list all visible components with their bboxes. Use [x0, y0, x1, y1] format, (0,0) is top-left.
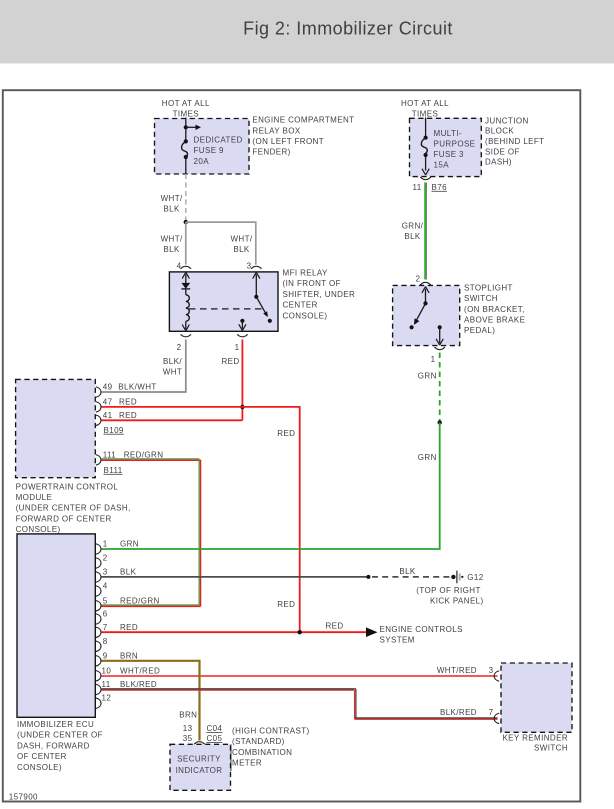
connector C04 C05 labels — [183, 724, 193, 743]
relay coil winding — [186, 295, 190, 321]
immobilizer ECU box — [17, 534, 95, 717]
MFI relay coil branch (pin 4) — [185, 275, 187, 284]
svg-text:METER: METER — [232, 759, 262, 768]
svg-text:Fig 2: Immobilizer Circuit: Fig 2: Immobilizer Circuit — [243, 18, 453, 38]
svg-text:WHT/: WHT/ — [161, 234, 183, 243]
svg-text:5: 5 — [103, 596, 108, 605]
wire into fuse box — [185, 118, 187, 175]
svg-text:(TOP OF RIGHT: (TOP OF RIGHT — [416, 586, 480, 595]
svg-text:BLK/WHT: BLK/WHT — [118, 383, 156, 392]
pin 2 immobilizer — [96, 558, 101, 568]
svg-text:C04: C04 — [207, 724, 223, 733]
ground G12 — [451, 575, 455, 579]
svg-text:12: 12 — [102, 694, 112, 703]
svg-text:RED: RED — [325, 622, 343, 631]
pin 47 PCM — [96, 402, 101, 412]
svg-text:B111: B111 — [104, 466, 123, 475]
svg-text:SHIFTER, UNDER: SHIFTER, UNDER — [283, 290, 356, 299]
svg-text:2: 2 — [416, 275, 421, 284]
PCM box — [16, 379, 96, 477]
junction block fuse box — [410, 118, 482, 176]
branch arrow node — [184, 125, 188, 129]
switch box: stoplight switch — [393, 285, 460, 345]
svg-text:7: 7 — [103, 623, 108, 632]
wire BLK/WHT from MFI pin2 to PCM pin49 — [102, 340, 186, 393]
svg-text:GRN/: GRN/ — [402, 221, 424, 230]
svg-text:(ON LEFT FRONT: (ON LEFT FRONT — [252, 137, 324, 146]
svg-text:RED/GRN: RED/GRN — [120, 596, 160, 605]
label security indicator — [176, 755, 223, 776]
svg-text:2: 2 — [177, 343, 182, 352]
svg-text:BLOCK: BLOCK — [485, 127, 514, 136]
node junction red — [240, 405, 244, 409]
svg-text:STOPLIGHT: STOPLIGHT — [464, 283, 513, 292]
relay pin 1 stub — [240, 319, 244, 323]
wire RED pin41 — [102, 419, 243, 421]
wire GRN/BLK to stoplight switch — [424, 183, 426, 280]
svg-text:PURPOSE: PURPOSE — [434, 139, 476, 148]
svg-text:BLK/RED: BLK/RED — [440, 708, 477, 717]
wire label WHT/BLK (left branch) — [161, 234, 183, 254]
svg-text:OF CENTER: OF CENTER — [17, 752, 67, 761]
svg-text:DASH): DASH) — [485, 158, 512, 167]
svg-text:CONSOLE): CONSOLE) — [283, 311, 328, 320]
label key reminder switch — [502, 734, 568, 753]
wire label RED (upper, vertical feed) — [277, 429, 295, 438]
svg-text:C05: C05 — [207, 734, 223, 743]
svg-text:TIMES: TIMES — [412, 109, 438, 118]
svg-text:7: 7 — [489, 708, 494, 717]
svg-text:11: 11 — [412, 183, 421, 192]
label immobilizer ECU — [17, 720, 103, 772]
label MFI relay — [283, 269, 356, 321]
fuse F9 value label — [194, 136, 243, 166]
svg-text:3: 3 — [103, 568, 108, 577]
svg-text:47: 47 — [103, 397, 113, 406]
svg-text:FENDER): FENDER) — [252, 148, 290, 157]
wire into fuse 3 — [425, 118, 427, 171]
wire label BLK/RED and pin 7 number — [440, 708, 494, 717]
svg-text:(UNDER CENTER OF DASH,: (UNDER CENTER OF DASH, — [16, 504, 131, 513]
relay box: dedicated fuse 9 box — [155, 119, 250, 175]
svg-text:BRN: BRN — [120, 651, 138, 660]
fuse F3 element — [424, 136, 428, 140]
svg-text:111: 111 — [103, 450, 117, 459]
svg-text:CONSOLE): CONSOLE) — [17, 763, 62, 772]
svg-text:RED: RED — [277, 429, 295, 438]
svg-text:1: 1 — [103, 540, 108, 549]
pin 8 immobilizer — [96, 641, 101, 651]
bracket line — [230, 744, 232, 771]
svg-text:MULTI-: MULTI- — [434, 129, 462, 138]
svg-text:(IN FRONT OF: (IN FRONT OF — [283, 279, 341, 288]
label combination meter — [232, 726, 310, 767]
wire label RED (lower, vertical feed) — [277, 600, 295, 609]
svg-text:1: 1 — [431, 355, 436, 364]
diode D in relay — [181, 283, 190, 289]
svg-text:HOT AT ALL: HOT AT ALL — [401, 99, 449, 108]
svg-text:B76: B76 — [432, 183, 448, 192]
pin 49 PCM — [96, 387, 101, 397]
svg-text:JUNCTION: JUNCTION — [485, 116, 529, 125]
svg-text:3: 3 — [247, 262, 252, 271]
wire GRN solid to immobilizer pin 1 — [102, 423, 440, 550]
node splice on green — [438, 420, 442, 424]
svg-text:BLK/: BLK/ — [163, 357, 182, 366]
wire WHT/BLK to MFI pin 3 — [186, 222, 256, 265]
fuse F3 value label — [434, 129, 476, 170]
svg-text:BLK: BLK — [120, 568, 137, 577]
node HOT AT ALL TIMES (left) — [162, 99, 210, 119]
relay U1 MFI relay box — [169, 272, 278, 331]
svg-text:GRN: GRN — [120, 540, 139, 549]
svg-text:10: 10 — [102, 666, 112, 675]
svg-text:1: 1 — [235, 343, 240, 352]
svg-text:FORWARD OF CENTER: FORWARD OF CENTER — [16, 514, 112, 523]
wire label RED (to engine controls) — [325, 622, 343, 631]
connector B109 — [104, 426, 124, 435]
fuse F9 element — [184, 139, 188, 143]
svg-text:ABOVE BRAKE: ABOVE BRAKE — [464, 316, 525, 325]
svg-text:15A: 15A — [434, 160, 450, 169]
svg-text:PEDAL): PEDAL) — [464, 326, 495, 335]
svg-text:4: 4 — [177, 262, 182, 271]
svg-text:RED: RED — [119, 411, 137, 420]
relay switch contact (pin 3 to pin 1) — [255, 275, 257, 297]
svg-text:IMMOBILIZER ECU: IMMOBILIZER ECU — [17, 720, 94, 729]
wire label BLK (ground run) — [399, 567, 416, 576]
svg-text:MODULE: MODULE — [16, 493, 53, 502]
svg-text:BLK/RED: BLK/RED — [120, 680, 157, 689]
svg-text:3: 3 — [489, 666, 494, 675]
wire label RED (MFI pin 1) — [221, 357, 239, 366]
svg-text:SECURITY: SECURITY — [177, 755, 221, 764]
label engine compartment relay box — [252, 116, 354, 157]
svg-text:20A: 20A — [194, 157, 210, 166]
arrow to engine controls system — [366, 627, 378, 637]
svg-text:KEY REMINDER: KEY REMINDER — [502, 734, 568, 743]
pin 7 key reminder switch — [494, 713, 499, 723]
svg-text:MFI RELAY: MFI RELAY — [283, 269, 329, 278]
svg-text:FUSE 3: FUSE 3 — [434, 150, 465, 159]
switch box: key reminder switch — [501, 663, 572, 732]
wire GRN dashed from stoplight pin 1 — [439, 353, 441, 423]
svg-text:KICK PANEL): KICK PANEL) — [430, 597, 484, 606]
pin 4 immobilizer — [96, 586, 101, 596]
svg-text:GRN: GRN — [418, 372, 437, 381]
node HOT AT ALL TIMES (right) — [401, 99, 449, 119]
svg-text:SWITCH: SWITCH — [534, 744, 568, 753]
svg-text:SYSTEM: SYSTEM — [380, 636, 415, 645]
svg-text:WHT/: WHT/ — [230, 234, 252, 243]
svg-text:BRN: BRN — [179, 710, 197, 719]
svg-text:DASH, FORWARD: DASH, FORWARD — [17, 741, 90, 750]
svg-text:POWERTRAIN CONTROL: POWERTRAIN CONTROL — [16, 482, 119, 491]
svg-text:SIDE OF: SIDE OF — [485, 147, 520, 156]
wire label WHT/BLK (right branch) — [230, 234, 252, 254]
svg-text:2: 2 — [103, 554, 108, 563]
pin 9 immobilizer — [96, 656, 101, 666]
svg-text:RED: RED — [119, 397, 137, 406]
pin 11 immobilizer — [96, 684, 101, 694]
svg-text:CONSOLE): CONSOLE) — [16, 525, 61, 534]
svg-text:35: 35 — [183, 734, 193, 743]
pin 3 key reminder switch — [494, 671, 499, 681]
wire label GRN (solid section) — [418, 453, 437, 462]
svg-text:RELAY BOX: RELAY BOX — [252, 126, 300, 135]
svg-text:157900: 157900 — [9, 793, 38, 802]
label junction block — [485, 116, 544, 166]
svg-text:GRN: GRN — [418, 453, 437, 462]
label engine controls system — [380, 625, 463, 645]
svg-text:SWITCH: SWITCH — [464, 294, 498, 303]
wire WHT/BLK to MFI pin 4 — [185, 222, 187, 265]
title bar — [0, 0, 614, 63]
connector B76 — [420, 177, 431, 179]
label G12 location — [416, 586, 483, 606]
connector B111 — [104, 466, 123, 475]
pin 6 immobilizer — [96, 614, 101, 624]
svg-text:RED: RED — [277, 600, 295, 609]
pin 111 PCM — [96, 455, 101, 465]
svg-text:BLK: BLK — [233, 245, 250, 254]
svg-text:COMBINATION: COMBINATION — [232, 748, 292, 757]
label powertrain control module — [16, 482, 131, 534]
svg-text:G12: G12 — [467, 573, 483, 582]
pin connector security indicator — [194, 742, 205, 744]
pin 1 stoplight switch — [434, 347, 445, 349]
wire label GRN/BLK — [402, 221, 424, 241]
svg-text:4: 4 — [103, 582, 108, 591]
svg-text:9: 9 — [103, 651, 108, 660]
svg-text:(BEHIND LEFT: (BEHIND LEFT — [485, 137, 544, 146]
wire RED/GRN pin111 to immobilizer pin5 — [102, 458, 200, 460]
pin 41 PCM — [96, 415, 101, 425]
svg-text:B109: B109 — [104, 426, 124, 435]
svg-text:8: 8 — [103, 637, 108, 646]
stoplight pin1 stub — [438, 325, 442, 329]
svg-text:RED: RED — [221, 357, 239, 366]
svg-text:CENTER: CENTER — [283, 301, 318, 310]
svg-text:(STANDARD): (STANDARD) — [232, 737, 285, 746]
svg-text:BLK: BLK — [163, 204, 180, 213]
pin 7 immobilizer — [96, 627, 101, 637]
svg-text:TIMES: TIMES — [173, 109, 199, 118]
label stoplight switch — [464, 283, 525, 335]
svg-text:RED/GRN: RED/GRN — [124, 450, 164, 459]
wire label WHT/RED and pin 3 number — [437, 666, 494, 675]
wire dashed WHT/BLK below fuse — [185, 174, 187, 221]
stoplight switch contact — [425, 289, 427, 304]
pin 10 immobilizer — [96, 671, 101, 681]
svg-text:ENGINE COMPARTMENT: ENGINE COMPARTMENT — [252, 116, 354, 125]
svg-text:INDICATOR: INDICATOR — [176, 766, 223, 775]
pin 1 immobilizer — [96, 544, 101, 554]
svg-text:ENGINE CONTROLS: ENGINE CONTROLS — [380, 625, 463, 634]
svg-text:13: 13 — [183, 724, 193, 733]
svg-text:BLK: BLK — [163, 245, 180, 254]
pin 5 immobilizer — [96, 601, 101, 611]
indicator box: security indicator — [170, 744, 231, 790]
svg-text:RED: RED — [120, 623, 138, 632]
svg-text:(UNDER CENTER OF: (UNDER CENTER OF — [17, 731, 103, 740]
svg-text:FUSE 9: FUSE 9 — [194, 146, 225, 155]
svg-text:WHT/RED: WHT/RED — [120, 666, 160, 675]
svg-text:41: 41 — [103, 411, 113, 420]
wire label BRN (vertical) — [179, 710, 197, 719]
svg-text:BLK: BLK — [404, 232, 421, 241]
svg-text:DEDICATED: DEDICATED — [194, 136, 243, 145]
wire RED pin47 across to vertical — [102, 407, 300, 632]
svg-text:11: 11 — [102, 680, 111, 689]
wire label BLK/WHT — [163, 357, 183, 377]
svg-text:6: 6 — [103, 610, 108, 619]
svg-text:(ON BRACKET,: (ON BRACKET, — [464, 305, 525, 314]
svg-text:BLK: BLK — [399, 567, 416, 576]
relay actuate dashed link — [189, 308, 265, 310]
svg-text:49: 49 — [103, 383, 113, 392]
svg-text:HOT AT ALL: HOT AT ALL — [162, 99, 210, 108]
pin 3 immobilizer — [96, 572, 101, 582]
junction splice — [184, 220, 188, 224]
svg-text:WHT: WHT — [163, 368, 182, 377]
wire RED from MFI pin1 down — [241, 340, 243, 421]
svg-text:WHT/RED: WHT/RED — [437, 666, 477, 675]
svg-text:WHT/: WHT/ — [161, 194, 183, 203]
wire BRN vertical over crossing — [102, 661, 200, 741]
wire label GRN (dashed section) — [418, 372, 437, 381]
pin 12 immobilizer — [96, 698, 101, 708]
svg-text:(HIGH CONTRAST): (HIGH CONTRAST) — [232, 726, 310, 735]
